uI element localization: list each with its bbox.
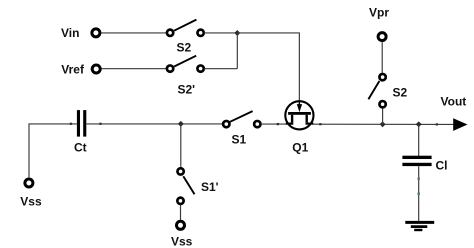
switch S2' [167, 56, 204, 72]
svg-text:S2: S2 [177, 41, 192, 55]
wire S1' to terminal [180, 205, 182, 220]
output arrow Vout [453, 118, 467, 131]
svg-text:Vref: Vref [61, 63, 85, 77]
terminal Vss (left) [25, 179, 33, 187]
switch S2 (right) [368, 74, 385, 107]
svg-text:S2: S2 [393, 86, 408, 100]
wire tick [99, 123, 101, 125]
wire Cl to ground [418, 166, 420, 221]
wire tick [70, 123, 72, 125]
node D junction [416, 121, 422, 127]
wire Ct to S1 [86, 123, 223, 125]
svg-text:Vin: Vin [61, 26, 79, 40]
wire Q1 to Vout [313, 123, 454, 125]
svg-text:Q1: Q1 [292, 141, 308, 155]
wire tick [436, 123, 438, 125]
capacitor Ct [77, 110, 86, 137]
wire Vin to S2 [101, 32, 166, 34]
svg-text:Vss: Vss [20, 194, 42, 208]
wire node A to Q1 gate [237, 33, 299, 101]
wire node D to Cl [418, 124, 420, 156]
wire mark (green) [418, 178, 420, 180]
wire node A down to S2' [236, 33, 238, 69]
switch S2 (Vin row) [167, 20, 204, 36]
svg-text:Vpr: Vpr [369, 5, 389, 19]
terminal Vpr [378, 33, 386, 41]
wire Vpr to S2 (right) [381, 42, 383, 72]
wire left rail corner [29, 124, 77, 177]
wire Vref to S2' [102, 68, 167, 70]
terminal Vin [92, 29, 100, 37]
wire mark (green) [418, 193, 420, 195]
node B junction [178, 121, 184, 127]
wire S2' to node A [204, 68, 237, 70]
wire S1 to Q1 [261, 123, 287, 125]
svg-text:S1: S1 [232, 133, 247, 147]
svg-text:Cl: Cl [436, 159, 448, 173]
wire tick [277, 123, 279, 125]
ground [405, 222, 434, 230]
wire node B to S1' [180, 124, 182, 167]
terminal Vref [92, 65, 100, 73]
svg-text:Ct: Ct [74, 141, 87, 155]
switch S1' [177, 168, 194, 204]
wire tick [319, 123, 321, 125]
svg-text:S2': S2' [178, 83, 196, 97]
svg-text:S1': S1' [201, 180, 219, 194]
terminal Vss (bottom) [177, 221, 185, 229]
wire S2 to node A [204, 32, 237, 34]
node C junction [380, 121, 386, 127]
node A junction [234, 30, 240, 36]
capacitor Cl [402, 156, 431, 166]
switch S1 [223, 111, 260, 127]
wire S2 (right) to rail [382, 109, 384, 125]
svg-text:Vout: Vout [441, 95, 467, 109]
svg-text:Vss: Vss [171, 234, 193, 248]
transistor Q1 [285, 101, 313, 130]
